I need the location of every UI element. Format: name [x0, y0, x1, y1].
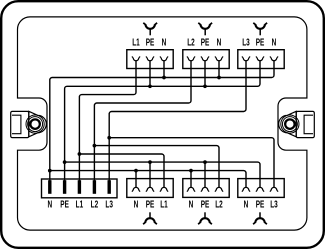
feed pin L1 [78, 180, 81, 194]
terminal cup bottom PE [147, 187, 153, 190]
svg-text:N: N [162, 36, 167, 48]
junction node at 150,86.3 [148, 84, 152, 88]
wire B2 PE stub [204, 162, 206, 187]
junction node at 205,162.1 [203, 160, 207, 164]
bottom socket block B1 [127, 179, 173, 198]
svg-text:L1: L1 [160, 198, 168, 210]
terminal cup top N [161, 58, 167, 61]
svg-text:N: N [244, 198, 249, 210]
svg-text:L1: L1 [132, 36, 140, 48]
terminal cup bottom PE [202, 187, 208, 190]
wire N feed riser and top N bus [50, 61, 274, 181]
svg-text:N: N [217, 36, 222, 48]
junction node at 191,170.6 [189, 169, 193, 173]
svg-text:PE: PE [256, 198, 265, 210]
terminal cup bottom N [188, 187, 194, 190]
wire T1 N stub [163, 61, 165, 78]
outgoing plug symbol top at x=260.2 [253, 23, 267, 36]
feed-in block B0 [42, 179, 118, 198]
terminal cup top PE [147, 58, 153, 61]
feed pin L2 [93, 180, 96, 194]
svg-text:PE: PE [146, 36, 155, 48]
junction node at 205,86.3 [203, 84, 207, 88]
terminal cup bottom L3 [271, 187, 277, 190]
outgoing plug symbol bottom at x=205.0 [198, 212, 212, 224]
top socket block T1 [127, 50, 173, 69]
terminal cup top N [271, 58, 277, 61]
svg-text:N: N [134, 198, 139, 210]
left lug boss [29, 111, 47, 137]
terminal cup top L3 [243, 58, 249, 61]
wire B2 N stub [190, 171, 192, 188]
outgoing plug symbol top at x=150.2 [143, 23, 157, 36]
terminal cup bottom N [133, 187, 139, 190]
terminal cup top L2 [188, 58, 194, 61]
svg-text:L3: L3 [270, 198, 278, 210]
bottom socket block B3 [238, 179, 284, 198]
svg-text:L3: L3 [242, 36, 250, 48]
junction node at 49.8,170.6 [48, 169, 52, 173]
svg-text:L2: L2 [187, 36, 195, 48]
svg-text:PE: PE [256, 36, 265, 48]
svg-text:L3: L3 [105, 198, 113, 210]
outgoing plug symbol top at x=205.2 [198, 23, 212, 36]
junction node at 94.4,145.6 [93, 144, 97, 148]
junction node at 79.4,154.0 [78, 152, 82, 156]
top socket block T2 [183, 50, 229, 69]
svg-text:L2: L2 [91, 198, 99, 210]
svg-text:N: N [272, 36, 277, 48]
junction node at 136,170.6 [134, 169, 138, 173]
wire PE feed riser and top PE bus [65, 61, 260, 181]
left lug screw hole [26, 115, 44, 133]
terminal cup bottom L2 [216, 187, 222, 190]
right lug boss [279, 111, 297, 137]
wire T2 PE stub [204, 61, 206, 87]
feed pin N [48, 180, 51, 194]
svg-text:L1: L1 [76, 198, 84, 210]
wire L1 feed riser and L1 bus to T1 [79, 61, 136, 181]
wire T1 PE stub [149, 61, 151, 87]
terminal cup top L1 [133, 58, 139, 61]
wire L2 branch bus to B2 [94, 146, 219, 188]
outgoing plug symbol bottom at x=260.0 [253, 212, 267, 224]
svg-text:PE: PE [201, 36, 210, 48]
junction node at 64.6,162.1 [63, 160, 67, 164]
terminal cup top PE [202, 58, 208, 61]
right lug bracket inner detail [304, 115, 313, 134]
wire L1 branch bus to B1 [79, 154, 164, 188]
left lug bracket inner detail [12, 115, 21, 134]
wire B1 N stub [135, 171, 137, 188]
right mounting lug bracket [296, 111, 314, 137]
feed pin PE [63, 180, 66, 194]
svg-text:N: N [47, 198, 52, 210]
junction node at 150,162.1 [148, 160, 152, 164]
junction node at 164,77.5 [162, 76, 166, 80]
wire PE branch bus to B3 [65, 162, 260, 187]
wire L3 branch bus to B3 [109, 138, 274, 188]
junction node at 109.2,137.7 [107, 136, 111, 140]
top socket block T3 [238, 50, 284, 69]
left mounting lug bracket [11, 111, 29, 137]
wire N branch bus to B3 [50, 171, 246, 188]
feed pin L3 [108, 180, 111, 194]
terminal cup bottom PE [257, 187, 263, 190]
terminal cup top PE [257, 58, 263, 61]
svg-text:L2: L2 [215, 198, 223, 210]
terminal cup bottom L1 [161, 187, 167, 190]
terminal cup top N [216, 58, 222, 61]
wire B1 PE stub [149, 162, 151, 187]
svg-text:PE: PE [146, 198, 155, 210]
svg-text:PE: PE [60, 198, 69, 210]
svg-text:PE: PE [201, 198, 210, 210]
wire T2 N stub [218, 61, 220, 78]
box inner outline with side notches [18, 17, 307, 230]
right lug screw hole [281, 115, 299, 133]
wire L3 feed riser and L3 bus to T3 [109, 61, 246, 181]
outgoing plug symbol bottom at x=150.0 [143, 212, 157, 224]
wire L2 feed riser and L2 bus to T2 [94, 61, 191, 181]
junction node at 219,77.5 [217, 76, 221, 80]
terminal cup bottom N [243, 187, 249, 190]
bottom socket block B2 [183, 179, 229, 198]
svg-text:N: N [189, 198, 194, 210]
